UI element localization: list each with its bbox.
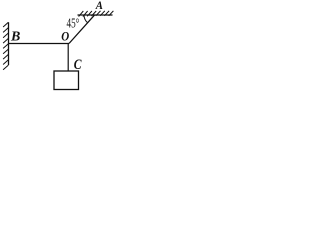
svg-text:C: C: [74, 56, 82, 73]
svg-text:B: B: [10, 29, 20, 44]
svg-text:45°: 45°: [67, 16, 80, 31]
svg-text:O: O: [61, 30, 69, 44]
svg-text:A: A: [95, 0, 104, 12]
